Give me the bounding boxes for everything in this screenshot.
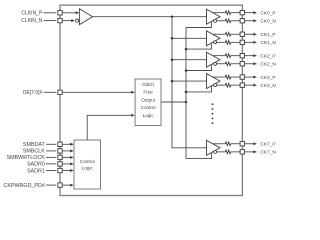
svg-text:Glitch: Glitch xyxy=(142,82,154,87)
wire CK1_N output xyxy=(217,41,226,43)
svg-text:CK2_P: CK2_P xyxy=(260,53,275,59)
pin CK7_P xyxy=(240,142,244,146)
wire enable distribution bus xyxy=(185,28,187,159)
wire SMBDAT to control logic xyxy=(62,143,70,145)
svg-text:Free: Free xyxy=(143,90,153,95)
chip outline U1 xyxy=(60,5,242,195)
output buffer CK0 inverting bubble xyxy=(214,19,217,22)
block: Control Logic xyxy=(74,140,101,189)
wire CK1_N to pin xyxy=(231,41,240,43)
pin CK2_N xyxy=(240,62,244,66)
wire CK3_P external xyxy=(245,76,254,78)
wire clock distribution bus xyxy=(172,17,207,148)
svg-text:CK1_N: CK1_N xyxy=(260,40,276,46)
resistor R1b xyxy=(225,40,230,44)
wire CK0_P to pin xyxy=(231,12,240,14)
output buffer CK1 inverting bubble xyxy=(214,41,217,44)
svg-text:CK3_N: CK3_N xyxy=(260,83,276,89)
wire CK7_N output xyxy=(217,151,226,153)
wire CKPWRGD_PD# to control logic xyxy=(62,184,70,186)
wire enable stub CK7 xyxy=(186,152,212,158)
svg-text:Control: Control xyxy=(80,159,95,164)
wire enable stub CK1 xyxy=(186,43,212,49)
node clock bus tap CK1 xyxy=(171,37,174,40)
wire SMBWRTLOCK to control logic xyxy=(62,156,70,158)
svg-text:SMBWRTLOCK: SMBWRTLOCK xyxy=(7,155,46,161)
svg-text:CK7_N: CK7_N xyxy=(260,150,276,156)
node enable bus tap CK3 xyxy=(185,91,188,94)
svg-text:SADR1: SADR1 xyxy=(27,168,45,174)
wire CK2_N output xyxy=(217,63,226,65)
wire CK7_N external xyxy=(245,151,254,153)
wire CK2_P output xyxy=(213,55,225,57)
wire CK1_P output xyxy=(213,33,225,35)
wire SADR1 to control logic xyxy=(62,170,70,172)
wire CK2_P external xyxy=(245,55,254,57)
svg-text:CK3_P: CK3_P xyxy=(260,75,275,81)
output buffer CK7 xyxy=(207,140,221,155)
wire clock main line xyxy=(93,16,207,18)
wire CK1_P to pin xyxy=(231,33,240,35)
pin CK3_N xyxy=(240,83,244,87)
input buffer U2 xyxy=(79,9,92,25)
wire CK2_N external xyxy=(245,63,254,65)
node enable bus tap CK1 xyxy=(185,48,188,51)
wire CK1_N external xyxy=(245,41,254,43)
wire CK0_N external xyxy=(245,20,254,22)
svg-text:SMBDAT: SMBDAT xyxy=(23,142,46,148)
svg-text:Output: Output xyxy=(141,97,156,102)
wire control logic to glitch logic xyxy=(87,115,131,140)
wire CLKIN_P to buffer xyxy=(62,12,76,14)
wire CK7_P output xyxy=(213,143,225,145)
wire clock stub to CK2 buffer xyxy=(172,59,207,61)
wire CK3_P output xyxy=(213,76,225,78)
resistor R2b xyxy=(225,62,230,66)
wire CK7_N to pin xyxy=(231,151,240,153)
pin CK2_P xyxy=(240,53,244,57)
svg-text:Control: Control xyxy=(141,105,156,110)
node enable bus junction from glitch logic xyxy=(185,101,188,104)
resistor R3b xyxy=(225,83,230,87)
pin CK7_N xyxy=(240,150,244,154)
wire CK7_P to pin xyxy=(231,143,240,145)
wire clock stub to CK3 buffer xyxy=(172,80,207,82)
resistor R0a xyxy=(225,11,230,15)
node clock bus tap CK2 xyxy=(171,58,174,61)
wire CLKIN_N to buffer xyxy=(62,20,71,22)
svg-text:CLKIN_P: CLKIN_P xyxy=(21,10,43,16)
wire CK3_P to pin xyxy=(231,76,240,78)
wire CK0_P external xyxy=(245,12,254,14)
wire CK0_P output xyxy=(213,12,225,14)
output buffer CK2 xyxy=(207,52,221,67)
wire glitch logic output to enable bus xyxy=(161,101,186,103)
output buffer CK2 inverting bubble xyxy=(214,62,217,65)
pin CK1_N xyxy=(240,40,244,44)
svg-text:CK1_P: CK1_P xyxy=(260,32,275,38)
wire CK0_N to pin xyxy=(231,20,240,22)
wire SMBCLK to control logic xyxy=(62,150,70,152)
wire OE to glitch logic xyxy=(62,91,131,93)
svg-text:CLKIN_N: CLKIN_N xyxy=(21,18,43,24)
input buffer U2 inverting bubble xyxy=(76,19,79,22)
node enable bus tap CK2 xyxy=(185,69,188,72)
resistor R7a xyxy=(225,142,230,146)
node clock bus junction xyxy=(171,15,174,18)
svg-text:Logic: Logic xyxy=(143,113,155,118)
pin CK0_N xyxy=(240,19,244,23)
pin CK0_P xyxy=(240,10,244,14)
resistor R3a xyxy=(225,75,230,79)
wire CK3_N external xyxy=(245,84,254,86)
wire clock stub to CK1 buffer xyxy=(172,37,207,39)
svg-text:CK2_N: CK2_N xyxy=(260,61,276,67)
svg-text:SADR0: SADR0 xyxy=(27,162,45,168)
pin CK1_P xyxy=(240,32,244,36)
svg-text:CK7_P: CK7_P xyxy=(260,141,275,147)
block: Glitch Free Output Control Logic xyxy=(135,79,161,126)
wire CK2_P to pin xyxy=(231,55,240,57)
wire CK7_P external xyxy=(245,143,254,145)
wire CK2_N to pin xyxy=(231,63,240,65)
output buffer CK3 xyxy=(207,74,221,89)
resistor R7b xyxy=(225,150,230,154)
resistor R2a xyxy=(225,54,230,58)
ellipsis for CK4-CK6 xyxy=(212,103,214,105)
output buffer CK1 xyxy=(207,31,221,46)
output buffer CK7 inverting bubble xyxy=(214,150,217,153)
wire SADR0 to control logic xyxy=(62,163,70,165)
svg-text:OE[7:0]#: OE[7:0]# xyxy=(23,90,43,96)
svg-text:CK0_N: CK0_N xyxy=(260,18,276,24)
wire CK3_N output xyxy=(217,84,226,86)
svg-text:CK0_P: CK0_P xyxy=(260,10,275,16)
wire CK1_P external xyxy=(245,33,254,35)
resistor R1a xyxy=(225,32,230,36)
resistor R0b xyxy=(225,19,230,23)
node clock bus tap CK3 xyxy=(171,80,174,83)
wire enable stub CK2 xyxy=(186,64,212,70)
svg-text:Logic: Logic xyxy=(82,166,94,171)
svg-text:SMBCLK: SMBCLK xyxy=(23,149,45,155)
wire CK0_N output xyxy=(217,20,226,22)
svg-text:CKPWRGD_PD#: CKPWRGD_PD# xyxy=(4,183,45,189)
output buffer CK3 inverting bubble xyxy=(214,84,217,87)
wire enable stub CK3 xyxy=(186,86,212,92)
wire CK3_N to pin xyxy=(231,84,240,86)
pin CK3_P xyxy=(240,75,244,79)
output buffer CK0 xyxy=(207,9,221,24)
wire enable stub CK0 xyxy=(186,21,212,27)
